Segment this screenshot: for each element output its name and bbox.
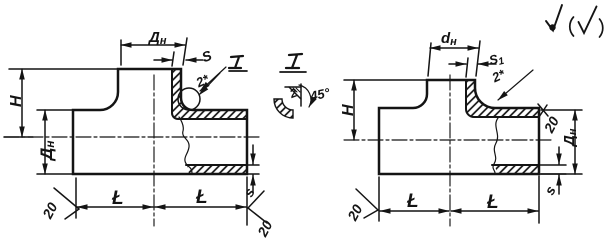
dim S: left arrow	[154, 59, 172, 61]
dim dn branch: dimension line	[430, 47, 478, 49]
dim Dn branch: extension lines	[120, 40, 122, 65]
svg-text:S: S	[200, 47, 215, 65]
svg-text:S1: S1	[487, 50, 505, 70]
dim s: upper arrow	[252, 145, 254, 164]
svg-text:Ł: Ł	[406, 191, 419, 212]
right tee hatched branch/run-top wall section	[466, 80, 539, 117]
dim L right extension	[246, 177, 248, 225]
dim H right tee: dimension line	[353, 80, 355, 140]
detail view angle arc with arrow	[299, 85, 311, 107]
dim Dn run right: dimension line	[574, 110, 576, 174]
dim H right tee: top extension	[344, 79, 427, 81]
dim H: bottom extension (axis extended left)	[4, 136, 33, 138]
svg-text:dн: dн	[441, 30, 457, 48]
dim s: lower arrow	[252, 175, 254, 193]
svg-text:H: H	[8, 95, 25, 107]
dim L left: line with arrows	[77, 206, 153, 208]
svg-text:20: 20	[254, 218, 276, 240]
right tee hatched run bottom wall section	[495, 165, 539, 174]
detail view I label	[286, 54, 302, 68]
detail callout label I	[229, 56, 243, 68]
roughness mark in parentheses	[570, 17, 574, 36]
dim L right (right tee)	[451, 210, 538, 212]
right tee bore inner top line	[466, 80, 539, 117]
svg-text:45°: 45°	[308, 85, 332, 104]
dim S1: right arrow	[478, 63, 496, 65]
svg-text:Дн: Дн	[37, 140, 57, 162]
detail view wall band (hatched arc)	[274, 99, 293, 118]
dim Dn run left: extensions	[37, 109, 73, 111]
roughness mark check with circle	[546, 5, 562, 31]
dim S branch wall: inner extension	[172, 52, 174, 66]
dim H: top extension (branch top extended left)	[9, 68, 118, 70]
svg-text:Ł: Ł	[195, 187, 208, 208]
dim L extensions right tee	[378, 177, 380, 221]
left tee hatched branch/run-top wall section	[172, 69, 247, 119]
mark 20 bottom-right of left tee	[248, 191, 264, 208]
left tee break wavy line	[179, 117, 192, 173]
dim H: dimension line	[21, 69, 23, 137]
right tee branch centerline	[449, 75, 451, 226]
detail callout leader	[200, 67, 226, 91]
svg-text:2: 2	[287, 85, 299, 101]
detail view chamfer hatch	[293, 88, 297, 92]
detail view I underline	[280, 71, 306, 73]
right tee break wavy line	[493, 118, 498, 174]
svg-text:s: s	[541, 183, 559, 198]
svg-text:Дн: Дн	[147, 29, 167, 47]
detail callout circle I (left tee)	[178, 88, 200, 110]
svg-text:s: s	[240, 185, 258, 200]
dim Dn run right side: extensions	[541, 109, 582, 111]
left tee hatched run bottom wall section	[187, 165, 247, 174]
left tee outer outline	[73, 69, 247, 174]
dim L right: line with arrows	[155, 206, 246, 208]
svg-text:2*: 2*	[489, 66, 508, 86]
dim S1: left arrow	[449, 63, 466, 65]
svg-text:20: 20	[344, 202, 366, 224]
detail view chamfer line 45	[289, 87, 301, 99]
dim s run bottom wall: extensions	[247, 164, 259, 166]
left tee branch centerline	[153, 75, 155, 226]
svg-text:2*: 2*	[193, 71, 212, 91]
right tee run centerline	[344, 139, 554, 141]
left tee bore inner bottom line	[186, 164, 247, 166]
dim Dn run left: dimension line	[44, 110, 46, 174]
dim S: right arrow	[186, 59, 203, 61]
right tee bore inner bottom line	[492, 164, 539, 166]
right tee outer outline	[379, 80, 539, 174]
mark 20 top-right of right tee	[538, 104, 548, 116]
dim dn branch: extensions	[428, 43, 431, 76]
svg-text:H: H	[340, 104, 357, 116]
dim L left extension	[75, 178, 77, 218]
left tee bore inner top line	[172, 69, 247, 119]
mark 20 bottom-left of left tee	[54, 188, 79, 209]
dim s right tee: arrows	[558, 147, 560, 164]
dim Dn branch: dimension line with arrows	[121, 44, 185, 46]
svg-text:20: 20	[39, 200, 61, 222]
svg-text:Ł: Ł	[486, 192, 499, 213]
detail view corner lines	[300, 84, 302, 106]
dim L left (right tee)	[380, 210, 449, 212]
left tee run centerline	[4, 136, 260, 138]
dim s right tee: extensions	[539, 164, 566, 166]
svg-text:Ł: Ł	[111, 188, 124, 209]
mark 20 bottom-left of right tee	[356, 189, 378, 210]
dim S1 branch wall: inner extension	[466, 58, 468, 77]
svg-text:Дн: Дн	[561, 128, 579, 148]
svg-text:20: 20	[540, 114, 562, 136]
